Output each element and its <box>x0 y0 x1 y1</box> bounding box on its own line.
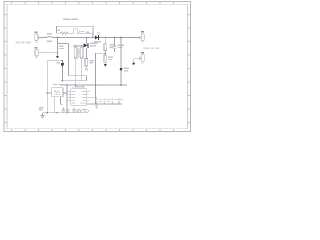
wire opto right pin <box>63 92 67 94</box>
wire sense column <box>95 53 97 104</box>
wire branch y43.5 <box>58 43 69 45</box>
net flag open arrow below rail <box>95 104 98 108</box>
net flag under J4 stub (filled) <box>133 62 135 64</box>
resistor R4 <box>85 58 88 66</box>
border zone ticks top <box>12 2 174 5</box>
IC U1 pin name texts <box>71 91 86 104</box>
capacitor C3 (bus to plates) <box>112 38 117 52</box>
node R2-R3 junction <box>104 52 106 54</box>
wire J2 to node <box>40 52 58 54</box>
resistor R1 (snubber zigzag) <box>57 32 71 34</box>
node bus-snubber junction <box>57 37 59 39</box>
connector J4 (out -) <box>134 55 145 62</box>
border zone ticks left <box>4 15 7 123</box>
capacitor C5 on bus-c <box>62 108 66 113</box>
node rail C10 <box>118 103 119 104</box>
node bus-b left <box>62 80 64 82</box>
node rail C8 <box>104 103 105 104</box>
wire DC- column <box>57 38 59 56</box>
wire opto bottom pin B <box>60 97 63 104</box>
wire left box leg <box>68 44 70 76</box>
ground symbol bottom left <box>40 113 44 119</box>
node gate-diode junction <box>62 60 64 62</box>
resistor R2 <box>104 38 107 56</box>
node rail C9 <box>112 103 113 104</box>
grid dots <box>12 15 175 123</box>
resistor R4 label <box>90 60 95 64</box>
resistor R3 <box>104 55 107 64</box>
capacitor C9 on rail <box>110 99 114 104</box>
wire J4 stub down <box>133 59 135 63</box>
IC U1 left pin stubs <box>67 91 71 100</box>
wire opto left pin <box>47 92 51 94</box>
diode D1 (bus, filled) <box>95 35 99 40</box>
capacitor C5 label <box>66 109 69 112</box>
resistor R1 label <box>57 30 60 31</box>
connector J3 (out +) <box>140 34 144 41</box>
connector J4 pin number <box>141 62 143 63</box>
wire gate column corner <box>46 61 48 113</box>
capacitor C3 label <box>118 44 124 48</box>
transistor Q1 label <box>90 42 98 46</box>
node bus-b secondary <box>120 84 122 86</box>
connector J2 <box>35 49 40 56</box>
net flag arrow under R3 (filled) <box>104 64 107 67</box>
capacitor C6 on bus-c <box>72 108 76 113</box>
optocoupler U2 label <box>53 84 63 85</box>
fuse F1 value labels <box>47 33 53 42</box>
diode D3 (filled, on vertical) <box>119 68 122 72</box>
resistor R2 label <box>110 44 115 48</box>
wire diode leg bottom <box>62 80 86 82</box>
net flag DC- (filled arrow) <box>56 56 59 59</box>
capacitor C6 label <box>76 109 79 112</box>
wire box bottom <box>69 75 87 77</box>
snubber box top wire <box>57 25 94 27</box>
optocoupler U2 box <box>52 88 63 97</box>
node bus-c gate column <box>46 112 48 114</box>
node rail C7 <box>96 103 97 104</box>
transistor Q1 (filled diode shape) <box>84 43 89 48</box>
node IC bus at bottom bus-b <box>66 84 68 86</box>
wire bottom bus left (primary gnd) <box>43 112 81 114</box>
node bus at switch <box>86 37 88 39</box>
node bus-snubber right leg <box>92 37 94 39</box>
wire top bus <box>58 37 141 39</box>
bottom bus label text <box>74 86 84 88</box>
connector J1 <box>35 34 40 41</box>
border zone ticks right <box>188 15 191 123</box>
resistor R3 label <box>108 56 113 60</box>
connector J3 pin number <box>141 42 143 43</box>
node J2 junction <box>57 52 59 54</box>
text 220V AC input <box>16 42 32 44</box>
connector J1 pin number <box>35 42 37 43</box>
snubber right leg <box>92 26 94 37</box>
oval net label GND <box>80 110 88 113</box>
IC U1 box <box>71 89 87 106</box>
capacitor C7 on rail <box>95 97 99 104</box>
node bus-c opto <box>56 112 58 114</box>
connector J1 label <box>34 31 37 32</box>
wire Q1 to T1 <box>83 44 85 47</box>
transformer T1 secondary winding <box>80 48 83 58</box>
border zone ticks bottom <box>12 129 174 132</box>
transformer T1 primary winding <box>74 48 77 58</box>
wire bottom bus primary <box>61 84 128 86</box>
wire R4 column <box>85 48 87 59</box>
wire opto bottom pin A <box>54 97 56 114</box>
diode D2 (filled) <box>61 63 64 67</box>
wire secondary column <box>120 38 122 86</box>
transformer T1 core lines <box>77 48 80 57</box>
wire switch drain <box>85 38 87 44</box>
node bus at secondary <box>120 37 122 39</box>
rail capacitor labels <box>99 99 123 102</box>
connector J2 label <box>35 47 38 48</box>
node T1 right top <box>81 45 83 47</box>
wire diode D2 column <box>61 61 63 81</box>
text output rating <box>144 47 160 49</box>
diode D1 label <box>94 32 101 42</box>
connector J4 label <box>141 52 144 54</box>
node opto left pin <box>46 92 48 94</box>
transformer T1 top wire <box>73 45 84 47</box>
diode D2 label <box>57 62 61 64</box>
node T1 left top <box>75 45 77 47</box>
wire mains L <box>40 37 45 39</box>
transformer T1 winding stubs <box>76 46 82 85</box>
ground label text <box>39 107 44 111</box>
capacitor C10 on rail <box>117 99 121 104</box>
snubber left leg <box>56 26 58 33</box>
wire box right leg <box>85 76 87 81</box>
connector J2 pin number <box>35 57 37 58</box>
node bus-b T1 <box>75 84 77 86</box>
capacitor C2 (snubber) <box>71 29 93 33</box>
node port circle under R4 <box>85 66 87 70</box>
sheet inner border <box>7 4 188 128</box>
snubber caption text <box>63 18 78 20</box>
IC U1 title <box>72 86 83 89</box>
connector J3 label <box>141 31 144 33</box>
node opto right pin <box>66 92 68 94</box>
capacitor C2 label <box>81 31 84 32</box>
fuse F1 <box>45 36 58 37</box>
snubber small text right <box>86 31 89 33</box>
optocoupler U2 internal <box>54 91 60 95</box>
IC U1 right pin stubs <box>87 91 122 104</box>
wire sense branch <box>96 52 106 54</box>
node bus at C3 <box>114 37 116 39</box>
wire gate horizontal <box>47 60 62 62</box>
capacitor C1 label <box>59 46 64 50</box>
diode D3 label <box>124 68 129 72</box>
node bus at R2 <box>104 37 106 39</box>
node sense-bus crossing <box>95 84 97 86</box>
sheet outer border <box>4 2 191 132</box>
IC U1 left pins bus <box>66 85 68 113</box>
capacitor C8 on rail <box>103 99 107 104</box>
oval text <box>82 111 86 112</box>
